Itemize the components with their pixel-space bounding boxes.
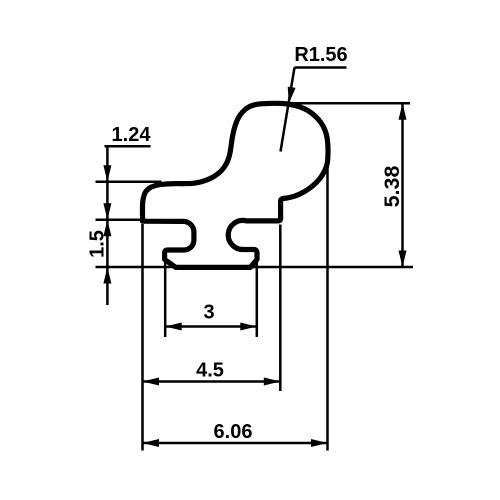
svg-text:6.06: 6.06 xyxy=(214,421,253,443)
svg-text:1.24: 1.24 xyxy=(112,124,152,146)
svg-text:4.5: 4.5 xyxy=(196,360,224,382)
svg-text:1.5: 1.5 xyxy=(87,230,109,258)
svg-text:R1.56: R1.56 xyxy=(294,44,347,66)
svg-text:3: 3 xyxy=(203,302,214,324)
svg-text:5.38: 5.38 xyxy=(380,166,404,208)
